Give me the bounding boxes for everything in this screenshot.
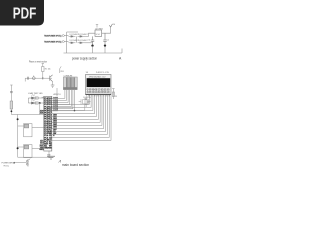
capacitor C1	[91, 36, 94, 44]
MCU U1 right pin labels	[47, 98, 52, 150]
MCU pin stub top-left	[42, 96, 44, 98]
drop rail vertical	[17, 115, 19, 158]
junction dot left rail	[11, 110, 13, 112]
resistor R1	[42, 67, 44, 72]
wire SW2 to rail	[18, 146, 24, 148]
regulator U2 body	[95, 30, 102, 36]
MCU U1 body	[44, 96, 52, 151]
svg-text:9V DC: 9V DC	[4, 166, 10, 168]
junction reset/R1	[42, 77, 44, 79]
upper fan wires MCU to connector	[52, 90, 75, 111]
+5V power flag	[109, 24, 112, 27]
svg-text:PDF: PDF	[13, 6, 37, 23]
left rail top tick	[10, 84, 12, 86]
ground bus power supply	[64, 49, 123, 54]
svg-text:C1: C1	[88, 39, 90, 41]
wire input2 to bridge	[64, 41, 68, 43]
svg-text:RV1: RV1	[84, 98, 87, 100]
bottom bus wire	[18, 156, 49, 158]
diode D3	[69, 42, 76, 44]
svg-text:power supply section: power supply section	[72, 57, 97, 61]
svg-text:GND: GND	[39, 149, 44, 151]
diode D2	[78, 35, 85, 37]
LCD screen	[87, 78, 111, 87]
wire SW1 to rail	[18, 125, 24, 127]
power flag above regulator	[96, 25, 98, 28]
svg-text:C2: C2	[107, 39, 109, 41]
svg-text:LOAD TEST LED: LOAD TEST LED	[28, 92, 43, 95]
LCD LCD1 body	[86, 75, 112, 95]
crystal X1	[79, 99, 91, 111]
wire LED D6 to MCU	[37, 102, 44, 104]
svg-text:main board section: main board section	[62, 163, 89, 167]
power flag near connector	[60, 66, 61, 73]
wire SW1 to MCU	[34, 126, 44, 128]
wire SW2 to MCU	[34, 148, 44, 150]
junction dot LED rail	[39, 102, 41, 104]
MCU outside-left labels	[39, 110, 44, 151]
PDF badge	[0, 0, 44, 26]
wire LED cathode rail down	[28, 98, 29, 103]
ground below MCU	[47, 156, 55, 159]
wire bottom left	[14, 162, 27, 164]
wire bridge out bottom	[85, 42, 93, 44]
capacitor C5 C6 wire to gnd	[75, 110, 85, 112]
pot RV1	[85, 97, 89, 107]
junction dot C2	[104, 44, 106, 46]
junction dot crystal	[74, 110, 76, 112]
resistor R5 after LED D6	[35, 102, 38, 104]
wire LED rail to bus	[39, 103, 41, 115]
terminal J1 pin1	[62, 35, 64, 37]
wire bridge top rail	[67, 31, 78, 33]
wire bridge out top	[85, 33, 96, 36]
diode D1	[69, 35, 76, 37]
horizontal bus to MCU	[11, 114, 43, 116]
junction dot drop rail bottom	[17, 147, 19, 149]
switch SW2 box	[24, 145, 34, 158]
terminal J1 pin2	[62, 41, 64, 43]
junction dot drop rail top	[17, 118, 19, 120]
LCD bottom edge	[86, 94, 112, 96]
MCU bottom gnd stub	[48, 151, 50, 157]
connector CN1 body	[63, 77, 77, 90]
wire bridge mid vertical	[76, 36, 78, 42]
LCD pin boxes line	[86, 88, 110, 93]
svg-text:VI VO: VI VO	[96, 34, 101, 36]
main fan wires MCU to LCD	[52, 95, 111, 141]
capacitor C3 on reset	[28, 77, 29, 80]
diode D4	[78, 42, 85, 44]
wire C2 to bus	[104, 46, 106, 53]
connector CN1 bottom band	[63, 87, 77, 89]
ground below Q1	[51, 85, 55, 87]
svg-text:R3: R3	[115, 96, 117, 98]
junction dot bottom left	[13, 162, 15, 164]
LED D6	[30, 99, 38, 104]
power flag reset net	[42, 64, 44, 67]
wire bridge left rail	[66, 32, 68, 53]
connector J2 bottom	[26, 159, 30, 167]
switch SW1 box	[24, 124, 34, 137]
wire C1 to bus	[92, 46, 94, 53]
capacitor C4 ticks on left rail	[10, 91, 13, 92]
resistor R3 right of LCD	[112, 89, 114, 99]
transistor Q1	[50, 75, 53, 82]
reset wire horizontal	[25, 78, 52, 81]
svg-text:Phase on reset section: Phase on reset section	[29, 60, 47, 63]
LCD pin stubs below	[87, 95, 110, 97]
svg-text:R1 10k: R1 10k	[45, 69, 51, 71]
main board section pointer	[59, 160, 61, 163]
MCU top power wire	[56, 88, 58, 96]
push button SW3	[32, 77, 35, 80]
svg-text:TRANSFORMER INPUT(2): TRANSFORMER INPUT(2)	[44, 41, 62, 44]
svg-text:TRANSFORMER INPUT(1): TRANSFORMER INPUT(1)	[44, 35, 62, 38]
wire LED D5 to MCU	[37, 97, 44, 99]
connector CN1 pins	[66, 78, 74, 90]
wire R1 to reset line	[42, 72, 44, 79]
svg-text:AD1: AD1	[40, 112, 44, 115]
wire input1 to bridge	[64, 35, 68, 37]
svg-text:16X2 LCD: 16X2 LCD	[96, 72, 110, 74]
wire regulator output	[102, 27, 111, 33]
left rail vertical	[10, 85, 12, 115]
net labels right of MCU	[53, 98, 58, 137]
svg-text:JHD162A LCD: JHD162A LCD	[89, 76, 107, 79]
wire Q1 emitter down	[52, 82, 54, 85]
resistor R2 on left rail	[10, 101, 13, 109]
MCU U1 left pin labels	[44, 98, 49, 150]
resistor R4 after LED D5	[35, 97, 38, 99]
LED D5	[30, 94, 38, 99]
junction dot C1	[91, 44, 93, 46]
push button SW3 actuator	[33, 76, 35, 77]
capacitor C2	[103, 33, 106, 44]
LCD pin row	[86, 90, 110, 94]
